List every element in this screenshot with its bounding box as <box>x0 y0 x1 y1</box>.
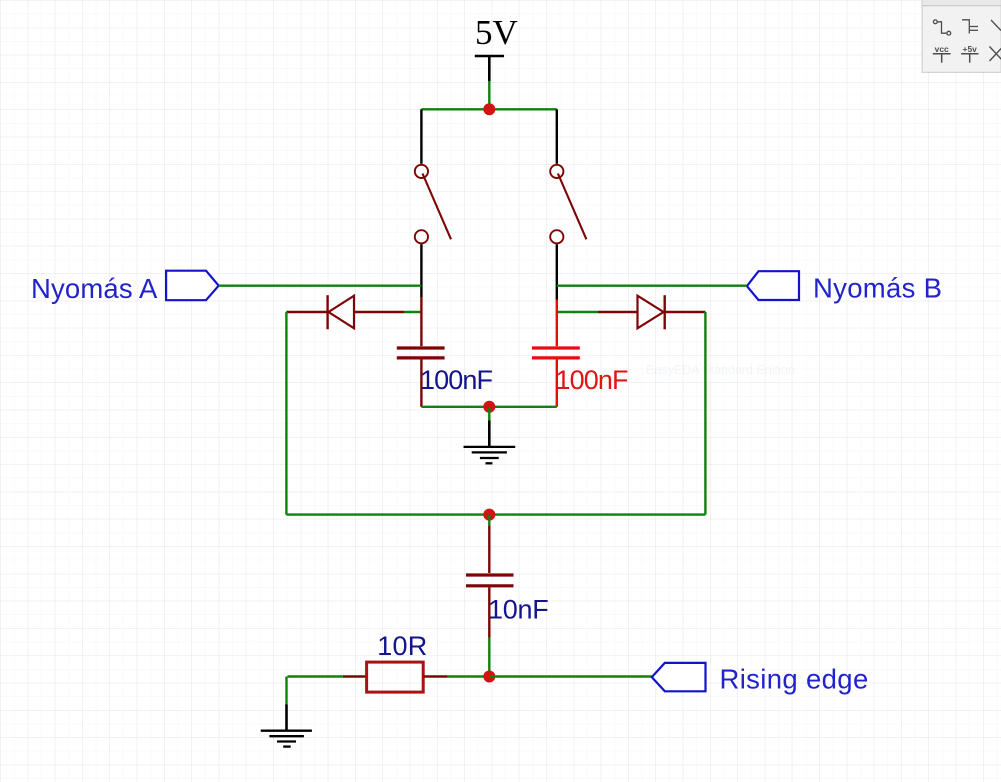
toolbar icon line <box>991 20 1001 31</box>
wire bottom loop <box>286 513 705 515</box>
wire 5V stem <box>488 81 490 109</box>
switch S1 <box>415 165 451 244</box>
svg-text:100nF: 100nF <box>556 365 628 395</box>
capacitor C3 10nF <box>466 526 514 638</box>
svg-text:Nyomás A: Nyomás A <box>31 273 158 304</box>
diode D1 <box>286 295 404 329</box>
ground GND2 <box>261 704 312 746</box>
svg-text:10nF: 10nF <box>488 595 549 625</box>
toolbar icon wire <box>933 20 950 35</box>
wire left loop vertical <box>285 312 287 515</box>
toolbar icon close X <box>990 47 1001 62</box>
wire loop to C3 <box>488 515 490 526</box>
wire Nyomás A <box>219 285 422 287</box>
wire cap bottom rail <box>421 406 556 408</box>
wire ground leg <box>285 677 287 705</box>
toolbar panel <box>922 0 1001 72</box>
diode D2 <box>598 295 705 329</box>
wire junction to Rising edge flag <box>489 675 652 677</box>
svg-text:5V: 5V <box>475 13 518 52</box>
net flag Nyomás A <box>166 271 219 301</box>
wire C3 to junction <box>488 638 490 677</box>
wire left switch top <box>420 109 422 164</box>
junction bottom loop <box>483 509 495 521</box>
wire ground to R1 <box>288 675 343 677</box>
junction rising edge <box>483 671 495 683</box>
svg-text:+5v: +5v <box>962 44 977 54</box>
svg-text:100nF: 100nF <box>420 365 492 395</box>
wire right switch top <box>556 109 558 164</box>
wire D1 to C1 <box>404 311 421 313</box>
wire Nyomás B <box>557 285 747 287</box>
capacitor C2 100nF selected <box>532 300 580 407</box>
net flag Nyomás B <box>747 271 799 300</box>
svg-text:vcc: vcc <box>935 44 949 54</box>
toolbar icon bus entry <box>962 20 978 34</box>
svg-text:EasyEDA Standard Edition: EasyEDA Standard Edition <box>646 363 795 377</box>
wire C2 to D2 <box>557 311 598 313</box>
toolbar icon VCC <box>933 44 951 63</box>
junction top <box>483 103 495 115</box>
power symbol +5V <box>475 56 504 81</box>
net flag Rising edge <box>652 663 706 691</box>
wire top rail <box>421 108 556 110</box>
svg-text:10R: 10R <box>377 631 427 661</box>
wire R1 to junction <box>448 675 490 677</box>
svg-text:Rising edge: Rising edge <box>720 664 869 695</box>
junction middle <box>483 401 495 413</box>
switch S2 <box>550 165 586 244</box>
ground GND1 <box>464 421 516 464</box>
capacitor C1 100nF <box>397 297 445 407</box>
wire right switch bottom <box>556 244 558 299</box>
toolbar icon +5V <box>961 44 979 63</box>
svg-text:Nyomás B: Nyomás B <box>813 273 942 304</box>
wire junction to ground <box>488 407 490 421</box>
resistor R1 <box>343 662 448 692</box>
wire left switch bottom <box>420 244 422 297</box>
wire right loop vertical <box>704 312 706 515</box>
